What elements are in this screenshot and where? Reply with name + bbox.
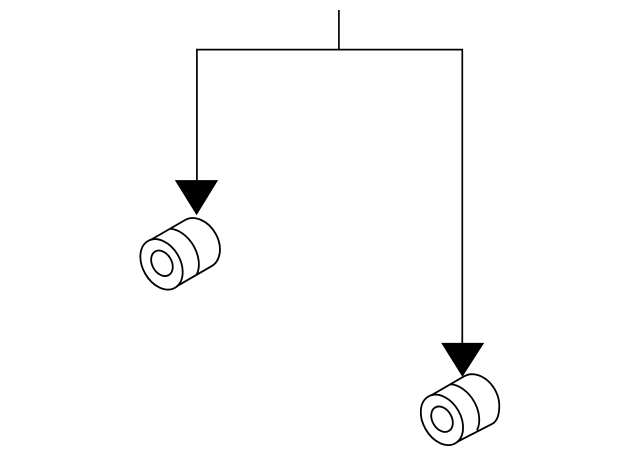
leader line bracket <box>197 50 462 345</box>
front face <box>132 232 192 298</box>
body outline <box>429 366 509 444</box>
middle ring <box>170 223 207 275</box>
bushing part right <box>412 366 509 454</box>
body outline <box>149 210 229 287</box>
middle ring <box>450 378 487 430</box>
leader line top stub <box>338 10 340 50</box>
center hole <box>427 403 457 436</box>
front face <box>412 387 472 453</box>
arrow right <box>441 343 484 377</box>
arrow left <box>175 180 218 215</box>
bushing part left <box>132 210 229 297</box>
center hole <box>147 247 177 280</box>
